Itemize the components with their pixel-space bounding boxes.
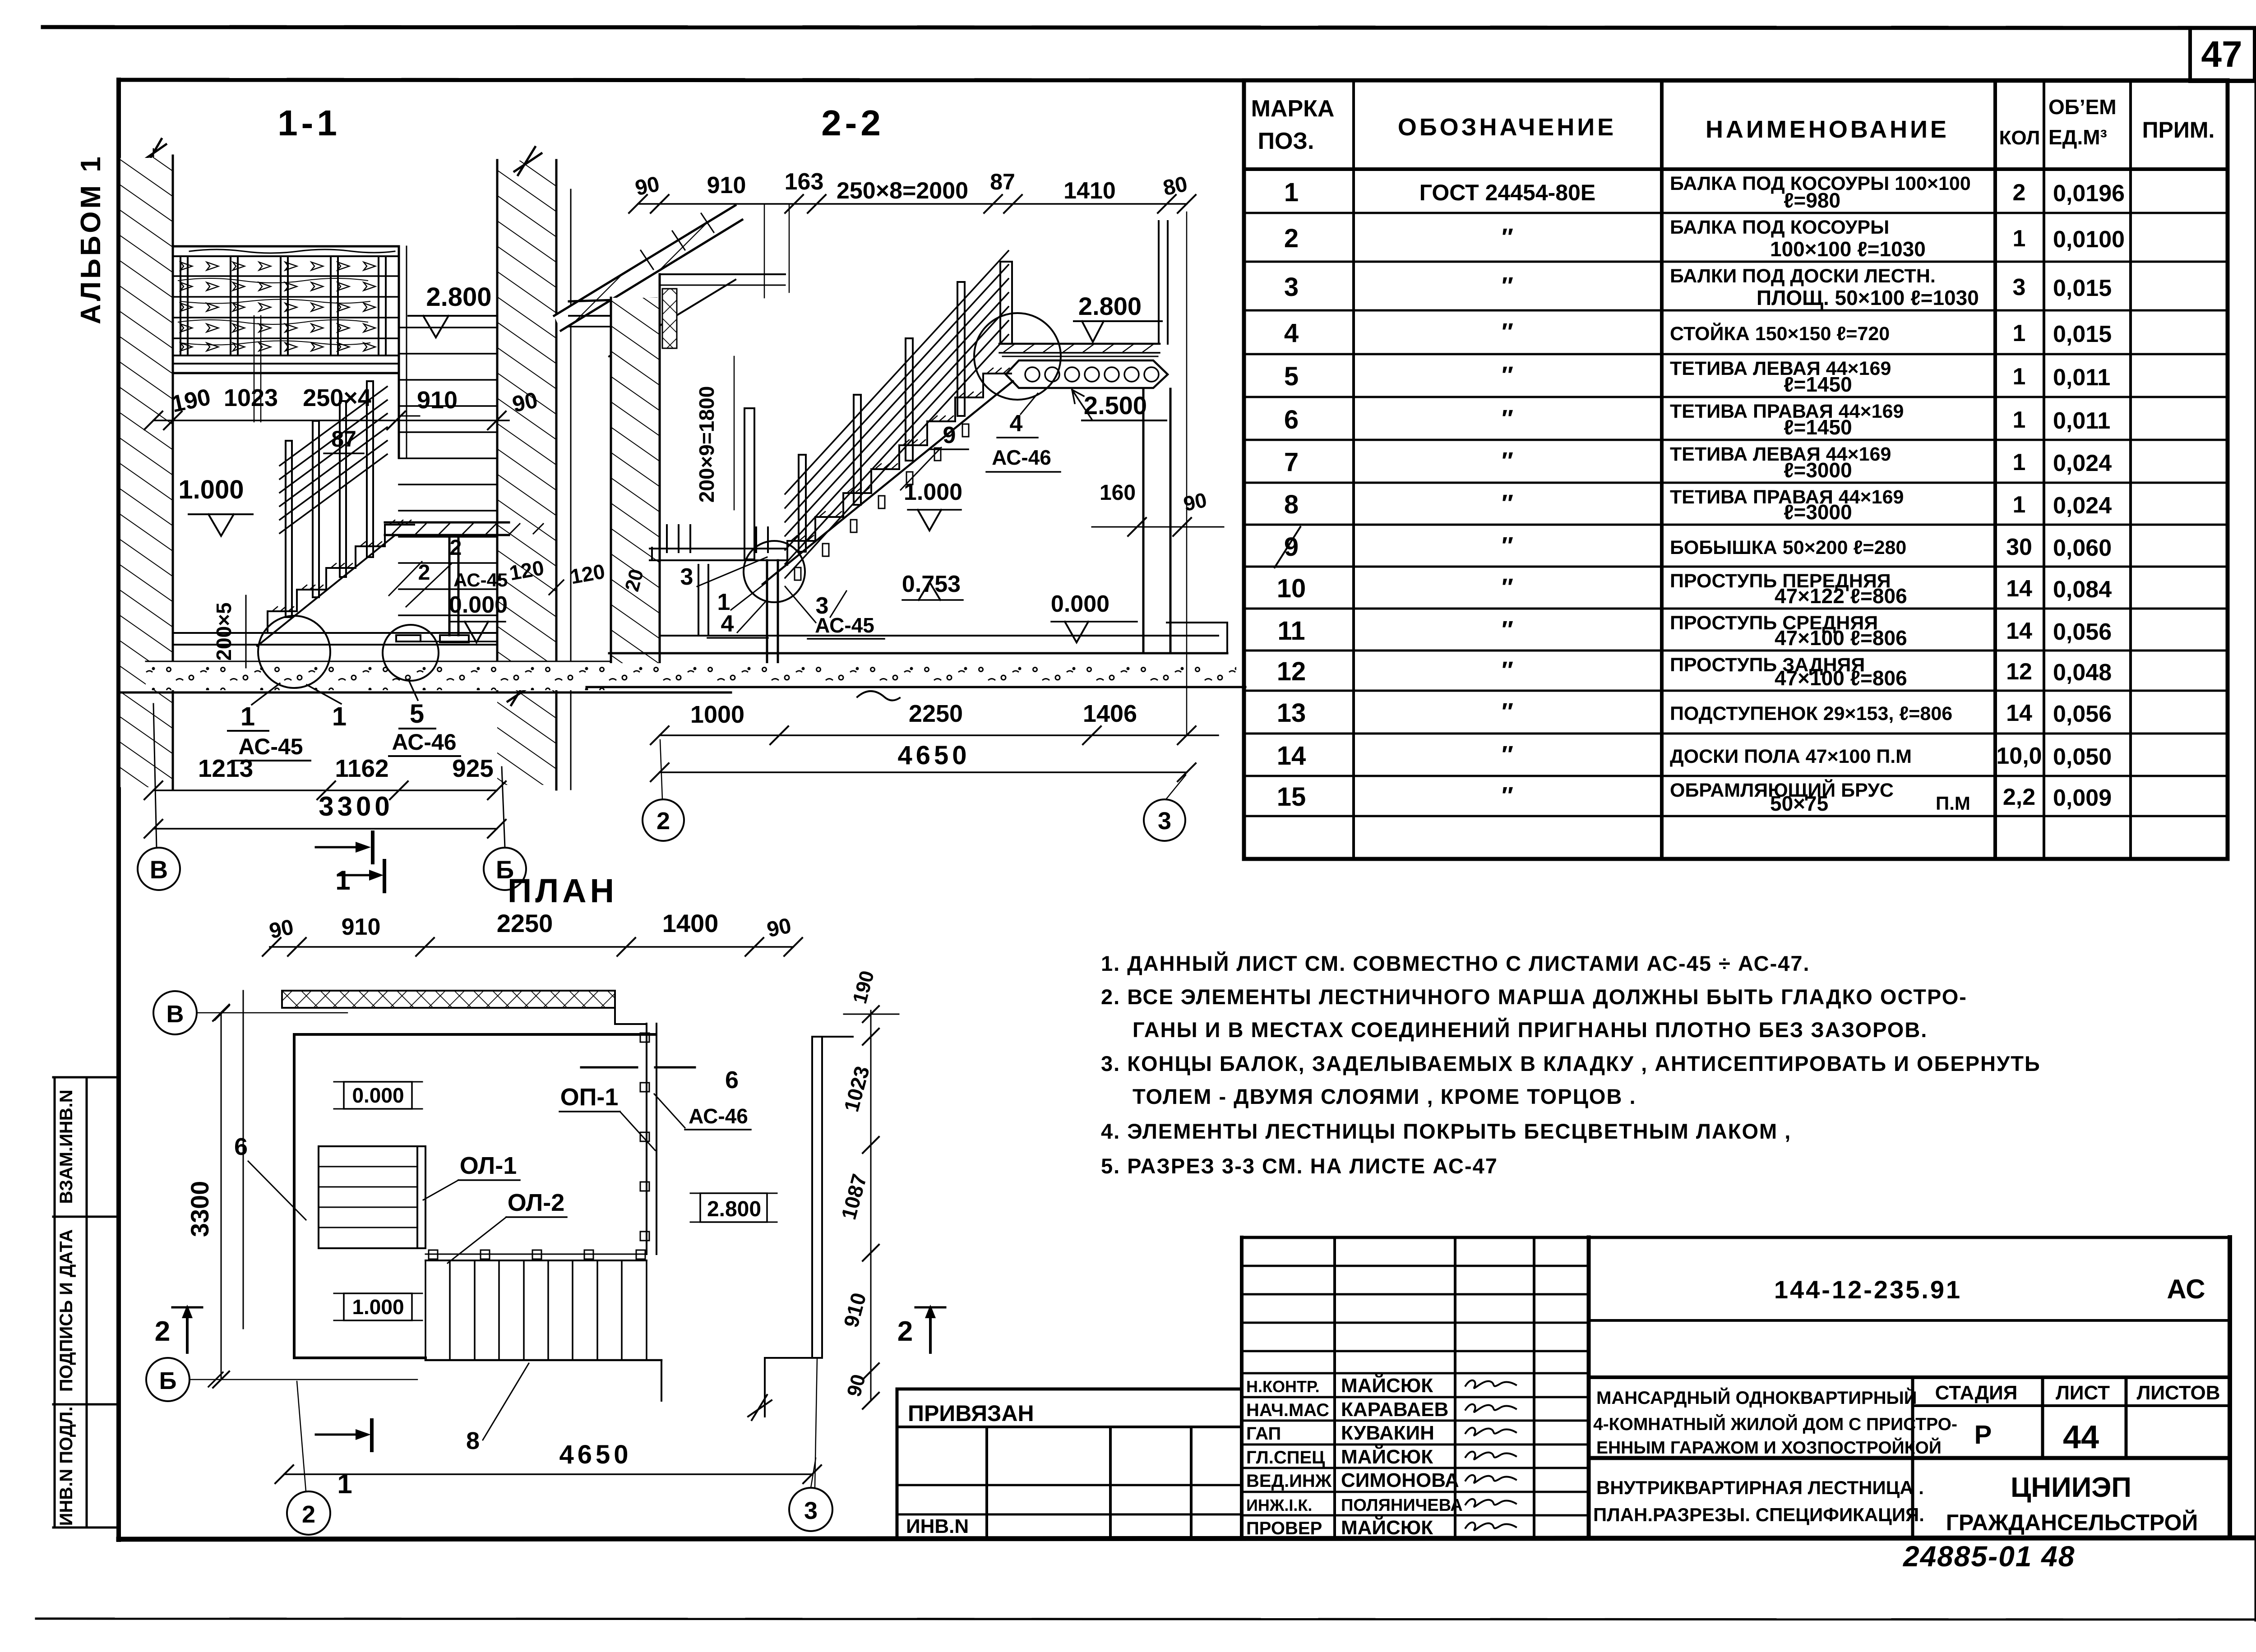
svg-text:12: 12 xyxy=(1277,657,1306,686)
svg-text:7: 7 xyxy=(1284,448,1299,477)
svg-text:9: 9 xyxy=(943,422,956,448)
PLAN xyxy=(146,861,945,1535)
svg-text:ВНУТРИКВАРТИРНАЯ ЛЕСТНИЦА .: ВНУТРИКВАРТИРНАЯ ЛЕСТНИЦА . xyxy=(1596,1477,1924,1498)
1-1 left wall hatched xyxy=(120,158,173,787)
svg-text:ТЕТИВА ЛЕВАЯ 44×169: ТЕТИВА ЛЕВАЯ 44×169 xyxy=(1670,443,1891,465)
plan dim 3300 xyxy=(221,1013,222,1380)
2-2 roof slope xyxy=(554,205,742,331)
svg-text:ИНЖ.I.К.: ИНЖ.I.К. xyxy=(1246,1496,1312,1514)
svg-text:4. ЭЛЕМЕНТЫ ЛЕСТНИЦЫ ПОКРЫТЬ: 4. ЭЛЕМЕНТЫ ЛЕСТНИЦЫ ПОКРЫТЬ БЕСЦВЕТНЫМ … xyxy=(1101,1119,1791,1143)
svg-text:30: 30 xyxy=(2006,534,2032,560)
2-2 top dim row xyxy=(638,203,1187,205)
1-1 landing balusters xyxy=(180,256,188,355)
svg-text:44: 44 xyxy=(2063,1419,2099,1455)
svg-text:ГЛ.СПЕЦ: ГЛ.СПЕЦ xyxy=(1246,1448,1325,1467)
2-2 dim row bottom2 xyxy=(660,771,1187,773)
svg-text:2,2: 2,2 xyxy=(2003,784,2035,810)
1-1 dim 87 leaders xyxy=(254,316,255,422)
svg-text:14: 14 xyxy=(2006,618,2032,644)
plan right dim chain xyxy=(870,1011,872,1401)
2-2 upper floor line xyxy=(660,273,785,275)
svg-text:5: 5 xyxy=(1284,362,1299,391)
svg-text:ВЗАМ.ИНВ.N: ВЗАМ.ИНВ.N xyxy=(56,1089,76,1204)
1-1 left wall axis xyxy=(153,149,154,695)
svg-text:0,060: 0,060 xyxy=(2053,535,2112,561)
svg-text:ℓ=3000: ℓ=3000 xyxy=(1784,500,1852,524)
svg-text:9: 9 xyxy=(1284,532,1299,562)
svg-text:МАЙСЮК: МАЙСЮК xyxy=(1341,1445,1433,1468)
2-2 roof band ticks xyxy=(641,213,714,269)
2-2 dim row bottom1 xyxy=(660,734,1218,736)
svg-text:47×122 ℓ=806: 47×122 ℓ=806 xyxy=(1775,584,1907,608)
svg-text:П.М: П.М xyxy=(1936,793,1970,814)
svg-text:0,011: 0,011 xyxy=(2053,408,2110,434)
plan section mark 1 top xyxy=(338,874,369,877)
svg-text:4: 4 xyxy=(721,611,734,637)
svg-text:3: 3 xyxy=(1284,272,1299,302)
svg-text:6: 6 xyxy=(234,1133,248,1160)
svg-text:0,009: 0,009 xyxy=(2053,785,2112,811)
svg-text:ПЛОЩ. 50×100 ℓ=1030: ПЛОЩ. 50×100 ℓ=1030 xyxy=(1757,286,1979,309)
svg-text:1406: 1406 xyxy=(1083,700,1137,727)
svg-text:″: ″ xyxy=(1502,574,1513,601)
svg-text:1: 1 xyxy=(2013,492,2026,518)
TITLE-BLOCK xyxy=(897,1237,2230,1573)
svg-text:АС-45: АС-45 xyxy=(453,569,508,591)
plan room box xyxy=(293,1034,296,1358)
plan OP-1 railing xyxy=(646,1024,647,1254)
1-1 detail circle 2 xyxy=(383,625,439,681)
plan grid bubble V xyxy=(153,991,197,1034)
2-2 lower landing floor xyxy=(650,548,787,549)
svg-text:ПРИВЯЗАН: ПРИВЯЗАН xyxy=(908,1401,1034,1426)
svg-text:90: 90 xyxy=(633,172,661,200)
svg-text:160: 160 xyxy=(1100,481,1136,505)
plan grid bubble 3 bottom xyxy=(789,1488,832,1531)
page number box 47 xyxy=(2190,28,2255,81)
svg-text:″: ″ xyxy=(1502,782,1513,809)
svg-text:БОБЫШКА 50×200 ℓ=280: БОБЫШКА 50×200 ℓ=280 xyxy=(1670,537,1906,558)
2-2 detail circles xyxy=(744,541,805,602)
2-2 stair steps xyxy=(787,374,1011,565)
1-1 stair stringer xyxy=(257,535,395,646)
svg-text:1.000: 1.000 xyxy=(352,1295,404,1319)
svg-text:КАРАВАЕВ: КАРАВАЕВ xyxy=(1341,1398,1448,1421)
svg-text:″: ″ xyxy=(1502,272,1513,300)
svg-text:ПОЗ.: ПОЗ. xyxy=(1258,128,1314,154)
2-2 railing posts xyxy=(799,455,806,552)
svg-text:0.000: 0.000 xyxy=(449,592,508,618)
svg-text:14: 14 xyxy=(1277,741,1306,771)
1-1 stair railing posts xyxy=(286,441,292,617)
svg-text:″: ″ xyxy=(1502,362,1513,389)
1-1 bottom dims xyxy=(153,789,497,791)
1-1 grid bubble V xyxy=(138,848,180,890)
svg-text:″: ″ xyxy=(1502,532,1513,559)
svg-text:2250: 2250 xyxy=(909,700,963,727)
bottom trim line xyxy=(36,1619,2256,1620)
title block right grid xyxy=(1589,1319,2230,1322)
svg-text:ИНВ.N ПОДЛ.: ИНВ.N ПОДЛ. xyxy=(56,1407,76,1526)
svg-text:925: 925 xyxy=(452,754,494,782)
svg-text:10,0: 10,0 xyxy=(1996,743,2042,769)
2-2 footing right xyxy=(1226,623,1228,653)
svg-text:1: 1 xyxy=(335,865,350,895)
svg-text:ℓ=980: ℓ=980 xyxy=(1784,189,1840,212)
1-1 tread hatch marks xyxy=(272,520,411,611)
plan level boxes xyxy=(344,1082,412,1109)
svg-text:3: 3 xyxy=(680,564,693,590)
svg-text:24885-01 48: 24885-01 48 xyxy=(1903,1540,2075,1573)
plan right wall xyxy=(811,1037,813,1358)
main frame left xyxy=(116,80,121,1540)
svg-text:14: 14 xyxy=(2006,576,2032,602)
svg-text:КУВАКИН: КУВАКИН xyxy=(1341,1422,1434,1444)
svg-text:ОБ’ЕМ: ОБ’ЕМ xyxy=(2048,95,2117,119)
1-1 ground band xyxy=(146,661,638,690)
svg-text:1: 1 xyxy=(337,1469,352,1499)
svg-text:2.800: 2.800 xyxy=(707,1197,761,1221)
1-1 detail leaders xyxy=(252,683,280,705)
2-2 grid bubble 2 xyxy=(643,799,684,841)
top trim line xyxy=(43,27,2256,28)
2-2 post under stair xyxy=(766,560,768,666)
svg-text:1: 1 xyxy=(1284,178,1299,207)
1-1 grid bubble B xyxy=(484,848,526,890)
svg-text:1: 1 xyxy=(2013,407,2026,433)
svg-text:1: 1 xyxy=(2013,320,2026,346)
plan OL-1 stair xyxy=(319,1146,425,1248)
svg-text:1: 1 xyxy=(240,702,255,731)
svg-text:Н.КОНТР.: Н.КОНТР. xyxy=(1246,1377,1320,1396)
right frame xyxy=(2255,28,2256,1620)
SECTION-2-2 xyxy=(508,103,1245,841)
svg-text:0,056: 0,056 xyxy=(2053,619,2112,645)
svg-text:1213: 1213 xyxy=(198,754,253,782)
svg-text:ГАНЫ И В МЕСТАХ СОЕДИНЕНИЙ: ГАНЫ И В МЕСТАХ СОЕДИНЕНИЙ ПРИГНАНЫ ПЛОТ… xyxy=(1133,1018,1928,1042)
svg-text:100×100 ℓ=1030: 100×100 ℓ=1030 xyxy=(1770,237,1926,261)
svg-text:1000: 1000 xyxy=(690,701,744,728)
svg-text:47: 47 xyxy=(2201,34,2242,75)
svg-text:АС-46: АС-46 xyxy=(992,446,1051,469)
svg-text:1.000: 1.000 xyxy=(904,479,962,505)
svg-text:2: 2 xyxy=(1284,224,1299,253)
2-2 post under landing xyxy=(698,565,699,636)
plan top wall step xyxy=(614,1008,616,1024)
svg-text:0,024: 0,024 xyxy=(2053,450,2112,476)
svg-text:2250: 2250 xyxy=(497,909,553,937)
svg-text:0,015: 0,015 xyxy=(2053,275,2112,301)
2-2 right post xyxy=(1142,389,1145,653)
2-2 left wall hatched xyxy=(611,298,660,687)
svg-text:47×100 ℓ=806: 47×100 ℓ=806 xyxy=(1775,666,1907,690)
svg-text:ИНВ.N: ИНВ.N xyxy=(906,1515,969,1537)
svg-text:2: 2 xyxy=(897,1316,913,1347)
1-1 detail circle 1 xyxy=(258,616,330,688)
svg-text:1400: 1400 xyxy=(662,909,719,937)
svg-text:СТАДИЯ: СТАДИЯ xyxy=(1935,1382,2018,1404)
svg-text:ОБОЗНАЧЕНИЕ: ОБОЗНАЧЕНИЕ xyxy=(1398,114,1616,141)
1-1 landing top rail xyxy=(173,245,399,248)
2-2 upper landing slab xyxy=(999,343,1160,345)
1-1 post under slab xyxy=(448,535,451,635)
svg-text:″: ″ xyxy=(1502,224,1513,251)
svg-text:1.000: 1.000 xyxy=(178,475,244,504)
svg-text:11: 11 xyxy=(1277,616,1305,646)
svg-text:В: В xyxy=(166,1001,184,1028)
svg-text:50×75: 50×75 xyxy=(1770,792,1828,815)
svg-text:0,0100: 0,0100 xyxy=(2053,226,2125,253)
svg-text:2-2: 2-2 xyxy=(821,103,884,143)
2-2 eaves crosshatch strip xyxy=(662,289,677,348)
svg-text:163: 163 xyxy=(785,169,824,195)
svg-text:14: 14 xyxy=(2006,700,2032,726)
privyazan box xyxy=(896,1389,899,1536)
svg-text:144-12-235.91: 144-12-235.91 xyxy=(1774,1275,1962,1304)
svg-text:ГРАЖДАНСЕЛЬСТРОЙ: ГРАЖДАНСЕЛЬСТРОЙ xyxy=(1946,1509,2198,1535)
svg-text:3300: 3300 xyxy=(185,1181,214,1237)
2-2 bobyshki blocks xyxy=(795,568,801,580)
plan outer left line xyxy=(243,991,244,1329)
svg-text:3: 3 xyxy=(1158,808,1171,835)
2-2 right axis line xyxy=(1186,212,1188,735)
svg-text:АС-46: АС-46 xyxy=(689,1104,748,1128)
svg-text:1023: 1023 xyxy=(224,384,278,411)
svg-text:ℓ=1450: ℓ=1450 xyxy=(1784,415,1852,439)
svg-text:1: 1 xyxy=(2013,364,2026,390)
svg-text:МАЙСЮК: МАЙСЮК xyxy=(1341,1516,1433,1539)
svg-text:0,011: 0,011 xyxy=(2053,365,2110,391)
NOTES xyxy=(1101,951,2041,1178)
svg-text:В: В xyxy=(150,855,168,884)
svg-text:СТОЙКА 150×150 ℓ=720: СТОЙКА 150×150 ℓ=720 xyxy=(1670,323,1890,345)
svg-text:ОЛ-2: ОЛ-2 xyxy=(508,1189,565,1216)
svg-text:ТЕТИВА ЛЕВАЯ 44×169: ТЕТИВА ЛЕВАЯ 44×169 xyxy=(1670,358,1891,379)
svg-text:90: 90 xyxy=(1181,488,1209,516)
spec table grid xyxy=(1244,80,2228,859)
svg-text:0.000: 0.000 xyxy=(1051,591,1110,617)
1-1 section mark 1 xyxy=(316,846,356,849)
svg-text:15: 15 xyxy=(1277,782,1306,812)
plan grid bubble B2 xyxy=(146,1358,190,1401)
svg-text:ГАП: ГАП xyxy=(1246,1424,1281,1444)
1-1 landing deck xyxy=(173,355,399,356)
svg-text:ЛИСТ: ЛИСТ xyxy=(2056,1382,2110,1404)
svg-text:НАИМЕНОВАНИЕ: НАИМЕНОВАНИЕ xyxy=(1706,116,1949,143)
1-1 stair railing band xyxy=(280,387,387,466)
svg-text:ОЛ-1: ОЛ-1 xyxy=(460,1152,517,1179)
svg-text:87: 87 xyxy=(990,169,1015,194)
2-2 top newel xyxy=(1000,262,1012,344)
svg-text:200×5: 200×5 xyxy=(212,602,236,660)
svg-text:″: ″ xyxy=(1502,448,1513,475)
svg-text:ЛИСТОВ: ЛИСТОВ xyxy=(2137,1382,2220,1404)
1-1 dim row top xyxy=(153,420,509,421)
svg-text:250×8=2000: 250×8=2000 xyxy=(837,178,968,204)
2-2 bottom newel xyxy=(744,408,754,559)
svg-text:Р: Р xyxy=(1974,1420,1992,1449)
svg-text:БАЛКА ПОД КОСОУРЫ: БАЛКА ПОД КОСОУРЫ xyxy=(1670,217,1889,238)
2-2 ceiling beam xyxy=(569,299,656,301)
svg-text:″: ″ xyxy=(1502,741,1513,768)
svg-text:НАЧ.МАС: НАЧ.МАС xyxy=(1246,1400,1329,1420)
2-2 stair stringer xyxy=(763,381,1013,584)
svg-text:ПЛАН.РАЗРЕЗЫ. СПЕЦИФИКАЦИЯ.: ПЛАН.РАЗРЕЗЫ. СПЕЦИФИКАЦИЯ. xyxy=(1593,1504,1924,1525)
svg-text:250×4: 250×4 xyxy=(303,384,371,411)
svg-text:910: 910 xyxy=(342,914,381,940)
svg-text:0,056: 0,056 xyxy=(2053,701,2112,727)
svg-text:СИМОНОВА: СИМОНОВА xyxy=(1341,1469,1459,1491)
2-2 tread hatch marks xyxy=(791,368,1009,541)
svg-text:2: 2 xyxy=(656,808,670,835)
svg-text:1410: 1410 xyxy=(1063,178,1116,204)
svg-text:АЛЬБОМ 1: АЛЬБОМ 1 xyxy=(75,154,106,324)
svg-text:2.800: 2.800 xyxy=(426,282,491,312)
svg-text:200×9=1800: 200×9=1800 xyxy=(695,386,718,503)
1-1 landing right edge xyxy=(398,246,400,458)
svg-text:ПРИМ.: ПРИМ. xyxy=(2142,117,2215,143)
svg-text:2: 2 xyxy=(450,536,462,560)
svg-text:47×100 ℓ=806: 47×100 ℓ=806 xyxy=(1775,626,1907,650)
svg-text:″: ″ xyxy=(1502,616,1513,643)
svg-text:″: ″ xyxy=(1502,490,1513,517)
svg-text:ℓ=1450: ℓ=1450 xyxy=(1784,373,1852,396)
svg-text:90: 90 xyxy=(267,915,296,943)
svg-text:ПОДПИСЬ И ДАТА: ПОДПИСЬ И ДАТА xyxy=(56,1229,76,1392)
svg-text:6: 6 xyxy=(725,1066,739,1094)
svg-text:ℓ=3000: ℓ=3000 xyxy=(1784,458,1852,482)
svg-text:1: 1 xyxy=(2013,449,2026,475)
svg-text:8: 8 xyxy=(1284,490,1299,519)
svg-text:ЦНИИЭП: ЦНИИЭП xyxy=(2011,1472,2131,1503)
plan bottom dim 4650 xyxy=(284,1473,812,1475)
svg-text:ПРОВЕР: ПРОВЕР xyxy=(1246,1518,1322,1538)
svg-text:4650: 4650 xyxy=(897,741,970,770)
svg-text:90: 90 xyxy=(510,387,540,417)
svg-text:1162: 1162 xyxy=(335,754,388,782)
svg-text:ВЕД.ИНЖ: ВЕД.ИНЖ xyxy=(1246,1471,1332,1491)
svg-text:Б: Б xyxy=(159,1367,177,1394)
svg-text:910: 910 xyxy=(707,172,746,198)
svg-text:4650: 4650 xyxy=(559,1440,632,1469)
svg-text:2: 2 xyxy=(302,1501,315,1528)
svg-text:1: 1 xyxy=(332,702,347,731)
plan top dim row xyxy=(270,946,793,948)
1-1 floor lines xyxy=(173,632,497,634)
svg-text:″: ″ xyxy=(1502,405,1513,432)
svg-text:ТОЛЕМ - ДВУМЯ СЛОЯМИ , КРОМЕ: ТОЛЕМ - ДВУМЯ СЛОЯМИ , КРОМЕ ТОРЦОВ . xyxy=(1133,1084,1637,1108)
svg-text:ПЛАН: ПЛАН xyxy=(508,872,618,909)
svg-text:″: ″ xyxy=(1502,657,1513,684)
svg-text:МАЙСЮК: МАЙСЮК xyxy=(1341,1374,1433,1397)
svg-text:3: 3 xyxy=(2013,274,2026,300)
svg-text:ГОСТ 24454-80Е: ГОСТ 24454-80Е xyxy=(1419,180,1596,205)
svg-text:6: 6 xyxy=(1284,405,1299,434)
svg-text:0,015: 0,015 xyxy=(2053,321,2112,347)
svg-text:3300: 3300 xyxy=(319,791,393,821)
svg-text:12: 12 xyxy=(2006,659,2032,685)
svg-text:МАНСАРДНЫЙ ОДНОКВАРТИРНЫЙ: МАНСАРДНЫЙ ОДНОКВАРТИРНЫЙ xyxy=(1596,1387,1917,1408)
svg-text:0,048: 0,048 xyxy=(2053,660,2112,686)
1-1 landing plank layers xyxy=(173,275,399,277)
svg-text:3: 3 xyxy=(804,1497,818,1524)
svg-text:2.800: 2.800 xyxy=(1078,292,1142,320)
svg-text:2.500: 2.500 xyxy=(1084,391,1147,420)
2-2 dim 160 90 xyxy=(1092,526,1224,528)
svg-text:8: 8 xyxy=(466,1427,480,1454)
signature table grid xyxy=(1240,1237,1244,1536)
svg-text:2: 2 xyxy=(2013,180,2026,206)
svg-text:3. КОНЦЫ БАЛОК, ЗАДЕЛЫВАЕМЫХ: 3. КОНЦЫ БАЛОК, ЗАДЕЛЫВАЕМЫХ В КЛАДКУ , … xyxy=(1101,1052,2041,1075)
svg-text:ОП-1: ОП-1 xyxy=(560,1084,619,1111)
svg-text:ДОСКИ ПОЛА 47×100 П.М: ДОСКИ ПОЛА 47×100 П.М xyxy=(1670,746,1912,767)
main frame top xyxy=(119,80,2256,81)
svg-text:″: ″ xyxy=(1502,698,1513,725)
svg-text:″: ″ xyxy=(1502,318,1513,346)
svg-text:ЕННЫМ ГАРАЖОМ И ХОЗПОСТРОЙКОЙ: ЕННЫМ ГАРАЖОМ И ХОЗПОСТРОЙКОЙ xyxy=(1596,1437,1942,1458)
SECTION-1-1 xyxy=(120,103,731,895)
svg-text:0.000: 0.000 xyxy=(352,1084,404,1107)
main frame bottom xyxy=(119,1538,2256,1539)
2-2 railing band xyxy=(785,251,1008,494)
svg-text:2. ВСЕ ЭЛЕМЕНТЫ ЛЕСТНИЧНОГО: 2. ВСЕ ЭЛЕМЕНТЫ ЛЕСТНИЧНОГО МАРША ДОЛЖНЫ… xyxy=(1101,985,1967,1009)
svg-text:1. ДАННЫЙ ЛИСТ СМ. СОВМЕСТН: 1. ДАННЫЙ ЛИСТ СМ. СОВМЕСТНО С ЛИСТАМИ А… xyxy=(1101,951,1810,975)
1-1 base plate in detail 2 xyxy=(396,635,421,641)
1-1 upper flight treads xyxy=(399,327,497,328)
stamp column boxes xyxy=(54,1077,56,1527)
svg-text:ПОЛЯНИЧЕВА: ПОЛЯНИЧЕВА xyxy=(1341,1496,1463,1515)
svg-text:4-КОМНАТНЫЙ ЖИЛОЙ ДОМ С ПРИСТР: 4-КОМНАТНЫЙ ЖИЛОЙ ДОМ С ПРИСТРО- xyxy=(1593,1414,1957,1434)
svg-text:5: 5 xyxy=(410,699,424,729)
svg-text:АС: АС xyxy=(2167,1274,2205,1304)
svg-text:0,084: 0,084 xyxy=(2053,577,2112,603)
svg-text:5. РАЗРЕЗ 3-3 СМ. НА ЛИСТ: 5. РАЗРЕЗ 3-3 СМ. НА ЛИСТЕ АС-47 xyxy=(1101,1154,1498,1178)
svg-text:910: 910 xyxy=(417,387,458,414)
2-2 floor and ground xyxy=(660,635,1218,637)
svg-text:80: 80 xyxy=(1161,172,1189,200)
svg-text:2: 2 xyxy=(155,1316,170,1347)
SPEC-TABLE xyxy=(1244,80,2228,859)
svg-text:87: 87 xyxy=(331,426,356,452)
plan top wall strip xyxy=(282,991,615,1008)
svg-text:1: 1 xyxy=(2013,226,2026,252)
svg-text:ЕД.М³: ЕД.М³ xyxy=(2048,125,2107,149)
svg-text:БАЛКИ ПОД ДОСКИ ЛЕСТН.: БАЛКИ ПОД ДОСКИ ЛЕСТН. xyxy=(1670,265,1936,287)
1-1 stair steps xyxy=(268,525,414,633)
2-2 grid bubble 3 xyxy=(1144,799,1185,841)
svg-text:0,0196: 0,0196 xyxy=(2053,180,2125,207)
1-1 landing slab xyxy=(385,521,509,524)
svg-text:0,050: 0,050 xyxy=(2053,744,2112,770)
svg-text:90: 90 xyxy=(765,914,793,942)
plan grid bubble 2 bottom xyxy=(287,1491,330,1535)
svg-text:13: 13 xyxy=(1277,698,1306,728)
svg-text:4: 4 xyxy=(1284,318,1299,348)
svg-text:МАРКА: МАРКА xyxy=(1251,96,1335,122)
LEFT-MARGIN xyxy=(53,154,119,1527)
plan lower flight treads xyxy=(425,1254,647,1255)
svg-text:КОЛ: КОЛ xyxy=(1999,127,2040,149)
svg-text:АС-45: АС-45 xyxy=(815,614,874,637)
plan section mark 1 bottom xyxy=(316,1434,356,1436)
svg-text:ПОДСТУПЕНОК 29×153, ℓ=806: ПОДСТУПЕНОК 29×153, ℓ=806 xyxy=(1670,703,1952,724)
svg-text:10: 10 xyxy=(1277,574,1306,603)
1-1 right wall hatched xyxy=(497,161,556,785)
svg-text:0,024: 0,024 xyxy=(2053,493,2112,519)
svg-text:АС-46: АС-46 xyxy=(392,729,456,755)
svg-text:1-1: 1-1 xyxy=(277,103,341,143)
